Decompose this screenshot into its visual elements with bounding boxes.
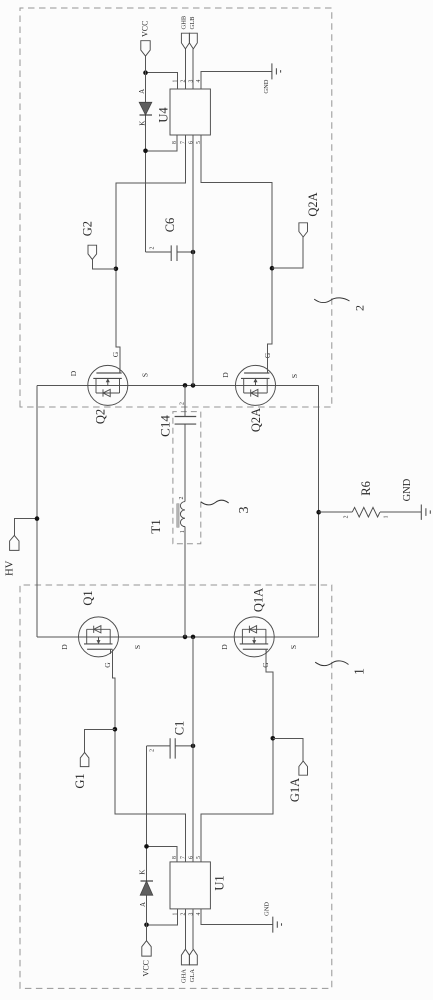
connector GHA flag <box>181 949 189 965</box>
dashed box 1 (lower bridge unit) <box>20 585 332 988</box>
svg-text:C1: C1 <box>173 721 187 736</box>
svg-text:D: D <box>69 370 78 376</box>
connector VCC flag box1 <box>142 941 151 956</box>
capacitor C6 <box>146 245 194 261</box>
svg-text:2: 2 <box>150 247 156 250</box>
connector G2 flag <box>88 245 97 259</box>
wire U1 pin6 VS line <box>192 637 194 862</box>
connector HV flag <box>10 535 19 550</box>
svg-text:D: D <box>60 644 69 650</box>
svg-text:S: S <box>289 645 298 649</box>
node VB junction box1 <box>144 844 149 849</box>
transformer T1 core <box>177 504 179 528</box>
svg-text:U4: U4 <box>157 107 171 123</box>
wire leg A (Q1 half-bridge midline) <box>37 636 319 638</box>
diode D2 <box>139 102 152 115</box>
svg-text:S: S <box>141 373 150 377</box>
svg-text:GND: GND <box>264 902 271 916</box>
dashed box 3 (transformer unit) <box>173 412 201 544</box>
capacitor C1 <box>147 738 194 758</box>
wire top HV rail <box>36 385 38 637</box>
wire U1 pin3 to GLA <box>192 909 194 949</box>
wire VCC line box1 <box>146 746 148 941</box>
svg-text:C14: C14 <box>158 415 173 437</box>
connector GLB flag <box>189 33 197 49</box>
transistor Q1A <box>234 617 274 657</box>
node leg B - VS <box>191 383 196 388</box>
pointer squiggle 2 <box>314 298 349 303</box>
svg-text:2: 2 <box>179 497 185 500</box>
connector G1A flag <box>299 761 308 775</box>
svg-text:GLB: GLB <box>189 16 196 30</box>
wire G1A branch <box>273 738 303 761</box>
svg-text:A: A <box>138 89 146 94</box>
svg-text:D: D <box>220 644 229 650</box>
node C1-VS junction <box>191 744 196 749</box>
node VCC-pin1 junction box1 <box>144 923 149 928</box>
op-amp U1 (gate driver IC) <box>170 862 210 909</box>
wire U1 pin4 to ground <box>201 909 273 925</box>
transformer T1 winding <box>180 502 185 527</box>
connector Q2A flag <box>299 223 308 237</box>
wire U4 pin8 to VB <box>146 135 177 151</box>
node C6-VS junction <box>191 250 196 255</box>
svg-text:Q1: Q1 <box>81 590 95 605</box>
wire Q2A connector branch <box>272 237 303 268</box>
node R6 junction <box>316 510 321 515</box>
svg-text:GND: GND <box>402 478 413 501</box>
node VCC-pin1 junction <box>143 70 148 75</box>
wire VCC line box2 <box>145 56 147 252</box>
ground at R6 <box>421 505 430 520</box>
connector GHB flag <box>181 33 189 49</box>
svg-text:2: 2 <box>353 305 367 311</box>
svg-text:GHA: GHA <box>181 969 188 983</box>
wire G2 branch <box>92 259 116 268</box>
svg-text:2: 2 <box>180 402 186 405</box>
capacitor C14 <box>175 417 197 425</box>
wire U4 pin7 to Q2 gate <box>116 135 186 373</box>
wire leg B (Q2 half-bridge midline) <box>37 384 319 386</box>
svg-text:R6: R6 <box>359 481 373 496</box>
svg-text:GLA: GLA <box>189 969 196 983</box>
op-amp U4 (gate driver IC) <box>170 89 210 135</box>
node leg A - T1 <box>183 635 188 640</box>
node HV junction <box>35 516 40 521</box>
wire HV elbow <box>14 519 37 536</box>
svg-text:G1: G1 <box>73 773 87 788</box>
pointer squiggle 3 <box>201 500 229 505</box>
transistor Q1 <box>79 617 119 657</box>
node leg B - T1 <box>183 383 188 388</box>
wire bottom rail <box>318 385 320 637</box>
wire U4 pin6 VS line <box>192 135 194 385</box>
wire R6 to ground <box>380 511 421 513</box>
svg-text:Q2A: Q2A <box>306 192 320 216</box>
svg-text:K: K <box>139 121 147 126</box>
wire U1 pin8 to VB <box>147 846 177 862</box>
svg-text:GHB: GHB <box>181 15 188 29</box>
wire U1 pin7 to Q1 gate <box>112 649 185 862</box>
svg-text:VCC: VCC <box>140 21 149 37</box>
svg-text:U1: U1 <box>213 875 227 890</box>
wire U4 pin2 to GHB <box>185 49 187 89</box>
transistor Q2A <box>236 365 276 405</box>
node G1 junction <box>113 727 118 732</box>
svg-text:G: G <box>103 662 112 668</box>
ground at U1 <box>273 917 282 933</box>
svg-text:Q1A: Q1A <box>252 588 266 612</box>
svg-text:A: A <box>139 902 147 907</box>
wire U4 pin1 to VCC line <box>146 73 178 89</box>
wire U1 pin5 to Q1A gate <box>201 649 273 862</box>
svg-text:S: S <box>133 645 142 649</box>
wire U4 pin4 to ground <box>201 72 272 89</box>
connector GLA flag <box>189 949 197 965</box>
svg-text:1: 1 <box>180 530 186 533</box>
svg-text:C6: C6 <box>163 218 177 233</box>
svg-text:1: 1 <box>384 515 390 518</box>
dashed box 2 (upper bridge unit) <box>20 8 332 407</box>
wire T1 primary link <box>184 385 186 637</box>
svg-text:HV: HV <box>5 560 16 576</box>
svg-text:1: 1 <box>353 668 368 675</box>
svg-text:G1A: G1A <box>288 778 302 802</box>
svg-text:Q2: Q2 <box>94 409 108 424</box>
wire U1 pin1 to VCC line <box>147 909 178 925</box>
diode D1 <box>140 881 153 895</box>
svg-text:G: G <box>111 351 120 357</box>
pointer squiggle 1 <box>315 661 348 666</box>
svg-text:K: K <box>139 870 147 875</box>
wire U1 pin2 to GHA <box>185 909 187 949</box>
connector VCC flag box2 <box>141 41 150 56</box>
svg-text:T1: T1 <box>148 519 163 533</box>
node VB junction <box>143 149 148 154</box>
node G2 junction <box>114 267 119 272</box>
wire G1 branch <box>85 729 115 752</box>
transistor Q2 <box>88 365 128 405</box>
node G1A junction <box>271 736 276 741</box>
ground at U4 <box>272 63 281 79</box>
wire U4 pin3 to GLB <box>192 49 194 89</box>
svg-text:Q2A: Q2A <box>249 408 263 432</box>
node leg A - VS <box>191 635 196 640</box>
wire to R6 <box>319 511 353 513</box>
svg-text:D: D <box>221 372 230 378</box>
svg-text:S: S <box>290 374 299 378</box>
connector G1 flag <box>80 752 89 766</box>
svg-text:VCC: VCC <box>141 960 150 976</box>
svg-text:2: 2 <box>344 515 350 518</box>
svg-text:G2: G2 <box>81 221 95 236</box>
svg-text:3: 3 <box>237 507 252 514</box>
svg-text:G: G <box>261 662 270 668</box>
svg-text:GND: GND <box>263 79 270 93</box>
node Q2A gate junction <box>270 266 275 271</box>
resistor R6 <box>352 507 380 517</box>
wire U4 pin5 to Q2A gate <box>201 135 272 373</box>
svg-text:2: 2 <box>150 749 156 752</box>
